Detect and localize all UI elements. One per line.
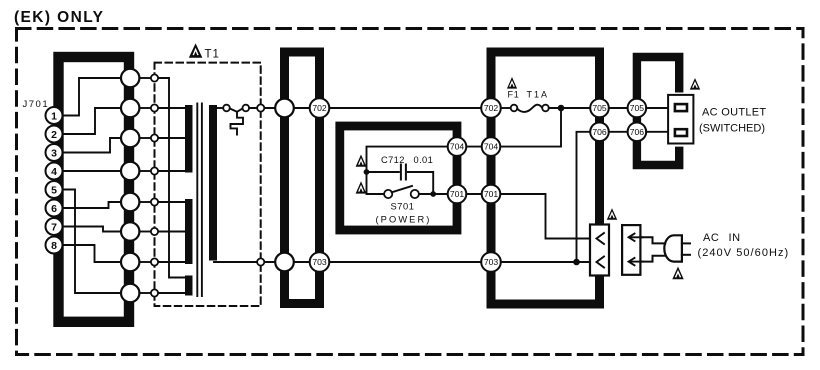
svg-text:1: 1 bbox=[51, 110, 57, 122]
wire pin8 to junction row7 bbox=[62, 245, 122, 262]
T1 boundary circle row2 bbox=[151, 104, 158, 111]
svg-text:703: 703 bbox=[312, 257, 327, 267]
svg-text:T1: T1 bbox=[205, 49, 220, 61]
left box plain circle bottom bbox=[275, 253, 294, 272]
AC plug body bbox=[664, 235, 682, 261]
J701 pin circle 6 bbox=[46, 200, 63, 217]
svg-text:8: 8 bbox=[51, 240, 57, 252]
power switch box bbox=[340, 126, 457, 230]
node 702 left bbox=[310, 98, 330, 118]
fuse terminal circle right bbox=[542, 105, 549, 112]
wire 702 to 702 bbox=[329, 107, 481, 109]
svg-text:6: 6 bbox=[51, 203, 57, 215]
svg-text:(EK) ONLY: (EK) ONLY bbox=[14, 9, 104, 26]
capacitor C712 wire left bbox=[367, 171, 399, 173]
T1 primary top boundary wire bbox=[249, 107, 274, 109]
wire row4 J701 to T1 bbox=[139, 170, 151, 172]
transformer T1 dashed enclosure bbox=[155, 63, 261, 306]
fuse terminal circle left bbox=[511, 105, 518, 112]
right bus box bbox=[491, 52, 600, 304]
T1 primary top wire bbox=[217, 107, 223, 109]
female connector arrow lower bbox=[629, 258, 643, 265]
wire pin3 to junction row3 bbox=[62, 138, 122, 153]
AC outlet warning triangle bbox=[690, 78, 700, 90]
junction dot switch output bbox=[430, 191, 436, 197]
T1 boundary circle row6 bbox=[151, 228, 158, 235]
J701 pin circle 3 bbox=[46, 144, 63, 161]
J701 pin circle 2 bbox=[46, 126, 63, 143]
svg-text:(240V 50/60Hz): (240V 50/60Hz) bbox=[698, 247, 790, 259]
left interconnect box bbox=[285, 52, 320, 304]
T1 secondary tap row5 bbox=[158, 201, 185, 203]
J701 pin circle 5 bbox=[46, 181, 63, 198]
left box plain circle top bbox=[275, 99, 294, 118]
node 705 right bus bbox=[590, 99, 609, 118]
svg-text:(POWER): (POWER) bbox=[375, 214, 431, 224]
svg-text:7: 7 bbox=[51, 221, 57, 233]
switch S701 contact left bbox=[384, 190, 392, 198]
power box warning triangle upper bbox=[356, 155, 367, 167]
male connector pin arrow upper bbox=[597, 233, 605, 244]
T1 boundary circle row3 bbox=[151, 134, 158, 141]
switch S701 wire left bbox=[367, 193, 385, 195]
junction dot cap branch bbox=[364, 169, 370, 175]
T1 boundary circle row7 bbox=[151, 258, 158, 265]
svg-text:701: 701 bbox=[484, 189, 499, 199]
T1 secondary winding bar segment 3 bbox=[185, 276, 193, 296]
wire row2 J701 to T1 bbox=[139, 107, 151, 109]
power box warning triangle lower bbox=[356, 181, 367, 193]
node 704 left bbox=[448, 137, 467, 156]
T1 secondary tap row3 bbox=[158, 137, 185, 139]
female connector arrow upper bbox=[629, 234, 643, 241]
wire 704 to 704 bbox=[466, 146, 481, 148]
svg-text:S701: S701 bbox=[390, 202, 414, 212]
AC inlet male connector bbox=[590, 225, 609, 276]
T1 boundary circle row1 bbox=[151, 74, 158, 81]
J701 pin circle 8 bbox=[46, 237, 63, 254]
wire 705 to outlet block bbox=[609, 107, 628, 109]
J701 junction circle row3 bbox=[121, 129, 139, 147]
wire fuse junction down to 704 bbox=[500, 108, 561, 147]
node 703 right bbox=[481, 252, 501, 272]
T1 core line 2 bbox=[201, 104, 203, 297]
node 702 right bbox=[481, 98, 501, 118]
wire pin1 to junction row1 bbox=[62, 78, 122, 116]
T1 primary winding bar bbox=[209, 105, 217, 261]
T1 primary bottom wire bbox=[214, 261, 275, 263]
J701 junction circle row6 bbox=[121, 222, 139, 240]
T1 boundary circle bottom right bbox=[257, 258, 264, 265]
capacitor C712 plates bbox=[401, 165, 406, 180]
wire 706 to outlet block bbox=[609, 131, 628, 133]
svg-text:705: 705 bbox=[592, 103, 607, 113]
svg-text:702: 702 bbox=[484, 103, 499, 113]
wire 701 to AC inlet pin bbox=[500, 194, 593, 239]
wire row6 J701 to T1 bbox=[139, 231, 151, 233]
node 706 right bus bbox=[590, 123, 609, 142]
capacitor C712 wire right bbox=[408, 172, 433, 194]
svg-text:2: 2 bbox=[51, 129, 57, 141]
J701 junction circle row7 bbox=[121, 253, 139, 271]
svg-text:701: 701 bbox=[450, 189, 465, 199]
node 704 right bbox=[482, 137, 501, 156]
T1 secondary winding bar segment 2 bbox=[185, 199, 193, 264]
wire 705 to outlet slot bbox=[646, 107, 676, 109]
J701 pin circle 4 bbox=[46, 163, 63, 180]
node 706 outlet bbox=[628, 123, 647, 142]
wire 703 to 703 bbox=[329, 261, 481, 263]
T1 secondary wire row1 long bbox=[158, 78, 185, 278]
left box internal wire top bbox=[290, 107, 313, 109]
T1 secondary tap row7 bbox=[158, 261, 185, 263]
T1 boundary circle row5 bbox=[151, 198, 158, 205]
wire pin4 to junction row4 bbox=[62, 170, 122, 172]
connector J701 body bbox=[59, 57, 130, 322]
wire row3 J701 to T1 bbox=[139, 137, 151, 139]
T1 thermal link circle a bbox=[223, 105, 230, 112]
AC plug prong upper bbox=[682, 242, 690, 244]
T1 secondary tap row6 bbox=[158, 231, 185, 233]
T1 thermal link circle b bbox=[243, 105, 250, 112]
switch S701 wire right bbox=[419, 193, 447, 195]
left box internal wire bottom bbox=[290, 261, 313, 263]
svg-text:F1T1A: F1T1A bbox=[508, 90, 550, 100]
AC plug prong lower bbox=[682, 254, 690, 256]
AC outlet slot upper bbox=[675, 104, 687, 111]
J701 pin circle 7 bbox=[46, 218, 63, 235]
J701 junction circle row4 bbox=[121, 162, 139, 180]
fuse wire right bbox=[549, 107, 591, 109]
svg-text:AC OUTLET: AC OUTLET bbox=[702, 106, 766, 118]
J701 junction circle row2 bbox=[121, 99, 139, 117]
wire pin5 to junction row8 bbox=[62, 190, 122, 294]
T1 thermal link dip wire bbox=[230, 109, 243, 112]
svg-text:4: 4 bbox=[51, 166, 57, 178]
wire 706 down to 703 line bbox=[577, 132, 591, 262]
power box wire to 704 bbox=[367, 147, 448, 194]
fuse F1 warning triangle bbox=[507, 77, 517, 89]
male connector pin arrow lower bbox=[597, 257, 605, 268]
T1 core line 1 bbox=[196, 104, 198, 297]
fuse element curve bbox=[517, 105, 542, 112]
wire row1 J701 to T1 bbox=[139, 77, 151, 79]
T1 boundary circle row4 bbox=[151, 167, 158, 174]
wire 701 to 701 bbox=[466, 193, 481, 195]
svg-text:5: 5 bbox=[51, 184, 57, 196]
switch S701 lever bbox=[392, 186, 412, 192]
svg-text:(SWITCHED): (SWITCHED) bbox=[699, 123, 765, 135]
AC outlet receptacle bbox=[668, 95, 693, 144]
T1 secondary tap row2 bbox=[158, 107, 185, 109]
fuse wire left bbox=[501, 107, 511, 109]
junction dot 703 inlet bbox=[573, 259, 580, 266]
T1 boundary circle row8 bbox=[151, 289, 158, 296]
wire pin7 to junction row6 bbox=[62, 227, 122, 232]
AC outlet slot lower bbox=[675, 129, 687, 136]
T1 secondary tap row4 bbox=[158, 170, 185, 172]
T1 boundary circle top right bbox=[257, 104, 264, 111]
wire row7 J701 to T1 bbox=[139, 261, 151, 263]
T1 secondary tap row8 bbox=[158, 292, 185, 294]
AC outlet block frame bbox=[637, 57, 679, 165]
svg-text:J701: J701 bbox=[23, 99, 50, 110]
J701 pin circle 1 bbox=[46, 107, 63, 124]
svg-text:ACIN: ACIN bbox=[703, 232, 741, 244]
wire row8 J701 to T1 bbox=[139, 292, 151, 294]
AC plug warning triangle bbox=[672, 267, 683, 280]
node 703 left bbox=[310, 252, 330, 272]
J701 junction circle row1 bbox=[121, 69, 139, 87]
svg-text:3: 3 bbox=[51, 147, 57, 159]
wire row5 J701 to T1 bbox=[139, 201, 151, 203]
plug boot neck bbox=[640, 237, 665, 261]
svg-text:704: 704 bbox=[450, 142, 465, 152]
svg-text:703: 703 bbox=[484, 257, 499, 267]
svg-text:702: 702 bbox=[312, 103, 327, 113]
svg-text:705: 705 bbox=[630, 103, 645, 113]
switch S701 contact right bbox=[411, 190, 419, 198]
node 701 right bbox=[482, 185, 501, 204]
junction dot fuse output bbox=[558, 105, 565, 112]
T1 thermal staircase bbox=[231, 112, 244, 135]
male connector warning triangle bbox=[607, 208, 617, 220]
node 705 outlet bbox=[628, 99, 647, 118]
T1 secondary winding bar segment 1 bbox=[185, 105, 193, 173]
svg-text:706: 706 bbox=[592, 127, 607, 137]
J701 junction circle row5 bbox=[121, 193, 139, 211]
T1 warning triangle bbox=[190, 45, 202, 58]
wire 703 to AC inlet pin bbox=[501, 261, 590, 263]
svg-text:706: 706 bbox=[630, 127, 645, 137]
wire pin6 to junction row5 bbox=[62, 202, 122, 208]
wire pin2 to junction row2 bbox=[62, 108, 122, 134]
wire 706 to outlet slot bbox=[646, 131, 676, 133]
AC plug female connector bbox=[622, 225, 640, 275]
svg-text:704: 704 bbox=[484, 142, 499, 152]
node 701 left bbox=[448, 185, 467, 204]
J701 junction circle row8 bbox=[121, 284, 139, 302]
